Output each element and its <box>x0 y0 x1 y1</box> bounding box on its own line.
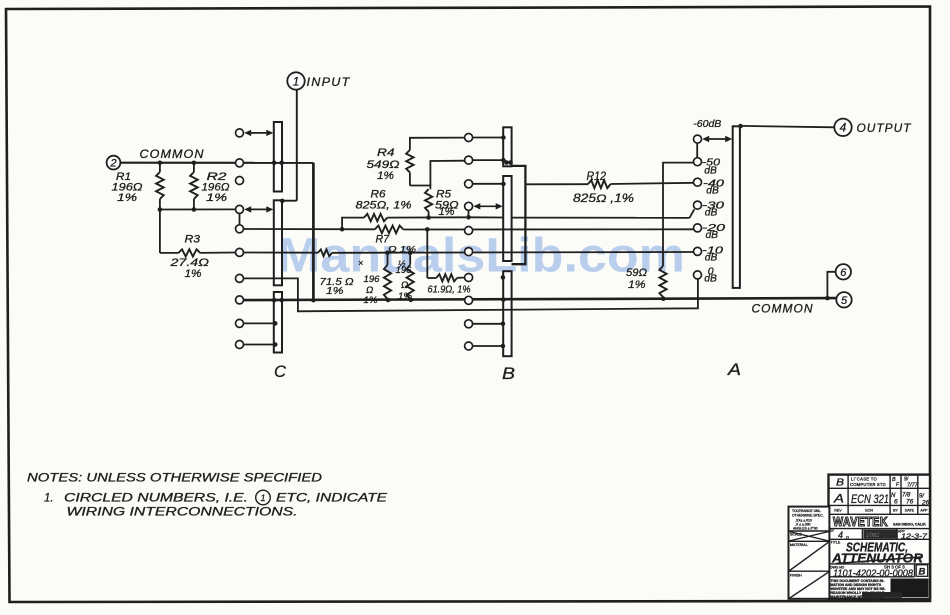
resistor R2 <box>193 163 195 172</box>
wire B contact2 to bar <box>473 159 504 161</box>
scale row <box>789 530 830 532</box>
switch B middle wafer bar <box>503 176 511 261</box>
svg-text:6: 6 <box>894 499 898 506</box>
wire input vertical <box>296 90 298 201</box>
revision table lines <box>829 487 931 489</box>
svg-text:1%: 1% <box>206 192 227 204</box>
node 1 INPUT <box>287 72 304 89</box>
svg-text:dB: dB <box>704 274 717 285</box>
svg-text:FINISH: FINISH <box>790 574 802 578</box>
svg-text:B: B <box>919 567 926 578</box>
resistor 61.9 ohm <box>427 277 436 279</box>
svg-text:COMPUTER STD: COMPUTER STD <box>850 482 886 487</box>
tolerance box <box>789 507 830 599</box>
svg-text:R4: R4 <box>377 147 395 159</box>
svg-text:LI´CASE TO: LI´CASE TO <box>851 477 878 482</box>
junction dots R1 R2 <box>158 161 163 166</box>
svg-text:INPUT: INPUT <box>307 75 351 89</box>
svg-text:ManualsLib.com: ManualsLib.com <box>277 230 685 283</box>
svg-text:1%: 1% <box>439 206 455 218</box>
wire R6 left elbow <box>342 218 364 230</box>
switch C bottom wafer bar <box>274 292 282 353</box>
svg-text:ECN 321: ECN 321 <box>851 494 889 506</box>
wire B contact1 to bar <box>473 137 504 139</box>
junction B top bar <box>501 135 506 140</box>
svg-text:825Ω ,1%: 825Ω ,1% <box>573 193 634 205</box>
resistor R1 <box>159 163 161 172</box>
svg-text:dB: dB <box>706 230 719 241</box>
wire R1 to R3 vertical <box>159 210 161 253</box>
svg-text:WAVETEK: WAVETEK <box>833 515 888 529</box>
switch A contacts <box>694 135 702 143</box>
svg-text:1%: 1% <box>377 170 394 182</box>
svg-text:1%: 1% <box>364 295 379 306</box>
svg-text:1101-4202-00-0008: 1101-4202-00-0008 <box>833 569 913 580</box>
svg-text:7/77: 7/77 <box>907 483 919 489</box>
svg-text:COMMON: COMMON <box>140 149 205 161</box>
wire B contact9 <box>473 323 503 325</box>
title block outer <box>829 475 931 599</box>
switch A wafer bar <box>733 126 740 288</box>
svg-text:76: 76 <box>906 499 914 506</box>
svg-text:NOTES: UNLESS OTHERWISE SPECIF: NOTES: UNLESS OTHERWISE SPECIFIED <box>27 473 322 485</box>
svg-text:Ω: Ω <box>401 280 408 291</box>
wire node6 link <box>827 272 835 298</box>
resistor 71.5 ohm <box>318 249 332 256</box>
wire 0dB lower bus <box>244 278 698 311</box>
resistor 59 ohm shunt <box>659 266 666 297</box>
wire common horizontal <box>120 162 313 164</box>
svg-text:59Ω: 59Ω <box>626 267 647 279</box>
resistor 196 ohm shunt 1 <box>387 253 389 265</box>
svg-text:1%: 1% <box>398 291 413 302</box>
svg-text:2: 2 <box>109 158 116 170</box>
junction common-bar dots <box>272 161 277 166</box>
wire C contact10 <box>243 344 275 346</box>
svg-text:dB: dB <box>705 208 718 219</box>
svg-text:26: 26 <box>921 500 930 507</box>
svg-text:TITLE: TITLE <box>831 541 841 545</box>
switch C top wafer bar <box>274 122 282 192</box>
node 2 COMMON <box>107 156 121 170</box>
svg-text:dB: dB <box>705 253 718 264</box>
svg-text:1%: 1% <box>628 279 646 291</box>
svg-text:5: 5 <box>841 295 848 307</box>
svg-text:1%: 1% <box>185 268 202 280</box>
junction dots main bus <box>272 298 277 303</box>
wire B contact3 to bar <box>473 183 504 185</box>
svg-text:DATE: DATE <box>905 508 915 512</box>
svg-text:4: 4 <box>838 530 843 540</box>
svg-text:BY: BY <box>893 508 898 512</box>
svg-text:REV: REV <box>834 508 842 512</box>
wire wiper node to B bar <box>469 216 504 218</box>
svg-text:A: A <box>833 492 844 506</box>
junction B bottom bar dots <box>501 275 506 280</box>
wire R6 to R5 junction <box>387 216 466 218</box>
switch A arrow <box>706 138 728 140</box>
wire 71.5 line (C to A -10dB) <box>243 252 318 254</box>
svg-text:1982: 1982 <box>866 533 880 539</box>
svg-text:4: 4 <box>840 121 847 135</box>
wire thick vertical main feed <box>312 163 315 300</box>
wire R7 line continuation <box>403 228 693 230</box>
svg-text:OUTPUT: OUTPUT <box>857 121 913 135</box>
svg-text:C: C <box>274 362 287 381</box>
resistor R4 <box>410 138 465 150</box>
svg-text:A: A <box>727 360 741 379</box>
wire -50dB elbow <box>663 163 694 266</box>
switch C contacts <box>236 129 244 137</box>
wire C contact9 <box>243 322 275 324</box>
wire -30dB line <box>511 217 689 219</box>
wire B top bar elbow <box>511 166 525 264</box>
switch C middle wafer bar <box>274 200 282 285</box>
svg-text:61.9Ω, 1%: 61.9Ω, 1% <box>428 285 471 296</box>
wire -60 to -50 link <box>696 143 698 158</box>
svg-text:CIRCLED NUMBERS, I.E.: CIRCLED NUMBERS, I.E. <box>64 493 248 505</box>
wire 61.9 branch vertical <box>426 229 428 278</box>
node 6 <box>836 264 851 279</box>
svg-text:6: 6 <box>840 267 847 279</box>
svg-text:ANGLES ± 0°30: ANGLES ± 0°30 <box>793 527 818 531</box>
svg-text:WIRING INTERCONNECTIONS.: WIRING INTERCONNECTIONS. <box>67 507 298 519</box>
wire R4R5 node <box>410 186 431 190</box>
svg-text:-60dB: -60dB <box>693 118 721 130</box>
svg-text:OTHERWISE SPEC.: OTHERWISE SPEC. <box>792 514 824 518</box>
svg-text:1%: 1% <box>326 285 344 297</box>
svg-text:1.: 1. <box>44 493 54 505</box>
node 5 <box>836 292 851 307</box>
svg-text:825Ω, 1%: 825Ω, 1% <box>356 200 412 212</box>
wire C contact5 link <box>239 209 241 228</box>
switch B arrow <box>477 205 498 207</box>
svg-text:R3: R3 <box>185 234 201 246</box>
svg-text:R12: R12 <box>587 171 607 183</box>
wiper dot under B arrow <box>466 215 471 220</box>
node 4 OUTPUT <box>834 119 851 136</box>
wire R1R2 bottom <box>160 208 236 210</box>
svg-text:1%: 1% <box>117 192 137 204</box>
junction input at bar C <box>280 199 285 204</box>
svg-text:ETC, INDICATE: ETC, INDICATE <box>276 493 387 505</box>
wire A bar to output <box>740 126 834 127</box>
wire -30dB jog <box>690 209 695 218</box>
resistor R5 <box>428 212 430 218</box>
svg-text:1: 1 <box>260 493 265 503</box>
resistor 196 ohm shunt 2 <box>409 253 411 265</box>
resistor R7 <box>375 226 403 234</box>
svg-text:APP: APP <box>920 508 928 512</box>
svg-text:dB: dB <box>704 166 717 177</box>
svg-text:SAN DIEGO, CALIF.: SAN DIEGO, CALIF. <box>893 523 926 527</box>
wire main common bus <box>243 298 836 300</box>
by date app row <box>861 529 863 540</box>
switch B contacts <box>465 134 473 142</box>
wire input to C wiper bar <box>282 200 297 202</box>
switch C arrows <box>248 132 269 134</box>
svg-text:B: B <box>502 364 515 383</box>
svg-text:×: × <box>358 258 363 268</box>
svg-text:COMMON: COMMON <box>752 304 814 316</box>
svg-text:1: 1 <box>293 74 300 88</box>
switch B top wafer bar <box>503 127 511 166</box>
svg-text:196: 196 <box>396 265 413 276</box>
resistor R12 <box>525 183 588 185</box>
svg-text:BY: BY <box>830 529 835 533</box>
svg-text:dB: dB <box>706 186 719 197</box>
resistor R6 <box>364 214 387 221</box>
svg-text:TOLERANCE UNL.: TOLERANCE UNL. <box>792 509 821 513</box>
svg-text:196: 196 <box>364 274 381 285</box>
wire B contact10 <box>473 345 503 347</box>
svg-text:ECN: ECN <box>865 508 873 512</box>
resistor R3 <box>160 252 179 254</box>
svg-text:B: B <box>836 478 844 489</box>
wire R7 line (C to A -20dB) <box>243 228 375 230</box>
svg-text:MATERIAL: MATERIAL <box>790 543 808 547</box>
switch B bottom wafer bar <box>503 271 511 356</box>
